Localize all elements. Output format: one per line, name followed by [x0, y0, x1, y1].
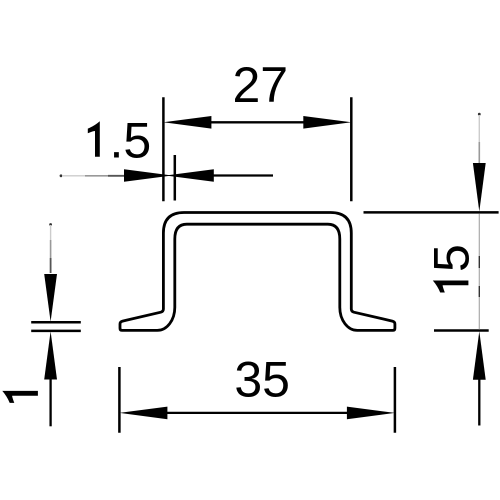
svg-text:27: 27: [232, 57, 288, 113]
svg-text:.5: .5: [110, 112, 152, 168]
svg-text:35: 35: [234, 352, 290, 408]
svg-text:5: 5: [423, 244, 479, 272]
